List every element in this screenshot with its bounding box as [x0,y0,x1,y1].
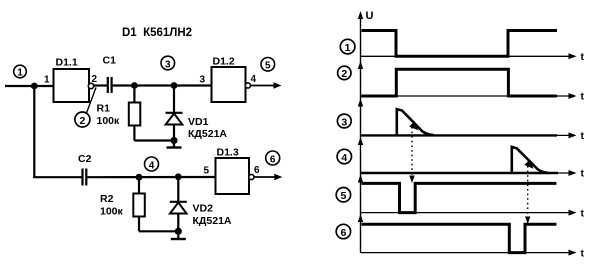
U axis [358,11,363,253]
svg-text:6: 6 [254,165,260,176]
svg-text:2: 2 [92,74,98,85]
dotted line 4 [525,166,530,224]
diode VD1 [166,86,183,141]
node 1 [14,65,27,78]
junction [175,228,182,235]
inverter D1.2 [212,67,251,102]
svg-text:D1.2: D1.2 [213,56,235,68]
resistor R1 [129,86,174,141]
node 4 [145,157,159,171]
waveform 2 [362,69,558,96]
node 3 [161,56,175,70]
svg-text:2: 2 [79,115,85,127]
t axis row 5 [361,210,577,216]
wire [112,84,212,86]
svg-text:t: t [581,130,585,142]
svg-text:1: 1 [345,42,351,54]
svg-text:t: t [581,207,585,219]
inverter D1.3 [216,158,254,194]
t axis row 1 [361,53,577,59]
svg-text:VD2: VD2 [193,203,214,215]
node label 3 [337,114,351,128]
wire [5,85,54,87]
svg-text:4: 4 [251,74,257,85]
t axis row 2 [361,93,577,99]
waveform 1 [362,31,558,57]
junction [175,173,182,180]
svg-text:6: 6 [270,154,276,165]
svg-text:C1: C1 [103,55,117,67]
waveform 4 [361,147,558,173]
svg-text:100к: 100к [97,115,121,127]
svg-text:D1.3: D1.3 [217,147,239,159]
t axis row 6 [361,250,577,256]
svg-text:U: U [366,10,374,22]
wire [94,84,108,86]
svg-text:5: 5 [204,166,210,177]
ground [171,231,186,239]
node label 6 [336,224,350,239]
ground [167,141,182,148]
svg-text:5: 5 [340,190,346,202]
t axis row 4 [361,170,577,176]
junction [136,174,143,181]
capacitor C1 [108,77,112,93]
node 6 [266,151,280,165]
svg-text:D1 К561ЛН2: D1 К561ЛН2 [122,27,192,39]
dotted line 3 [409,127,414,183]
svg-text:t: t [581,51,585,63]
junction [31,83,38,90]
discharge arrow 4 [526,161,533,168]
svg-text:4: 4 [149,160,155,171]
node label 2 [338,66,351,80]
svg-text:4: 4 [341,152,347,164]
resistor R2 [133,177,178,231]
waveform 5 [362,183,557,212]
diode VD2 [170,177,187,231]
junction [170,137,177,144]
svg-text:2: 2 [341,68,347,80]
svg-text:3: 3 [165,59,171,70]
node label 4 [337,149,351,164]
svg-text:3: 3 [341,116,347,128]
wire [254,174,282,181]
waveform 6 [362,224,557,252]
svg-text:t: t [581,247,585,259]
node 5 [261,58,275,72]
svg-text:R2: R2 [100,193,114,205]
svg-text:3: 3 [200,75,206,86]
svg-text:C2: C2 [78,153,92,165]
svg-text:1: 1 [17,68,23,79]
svg-text:R1: R1 [97,103,111,115]
discharge arrow 3 [411,123,418,130]
svg-text:100к: 100к [100,206,124,218]
svg-text:VD1: VD1 [188,116,209,128]
node 2 [75,88,96,128]
waveform 3 [361,109,557,135]
node label 1 [340,39,355,54]
svg-text:1: 1 [44,75,50,86]
junction [131,82,138,89]
t axis row 3 [361,132,577,138]
svg-text:t: t [581,91,585,103]
svg-text:5: 5 [265,61,271,72]
svg-text:t: t [581,168,585,180]
junction [171,82,178,89]
wire [33,86,35,177]
svg-text:КД521А: КД521А [193,215,232,227]
svg-text:КД521А: КД521А [188,128,227,140]
wire [33,176,82,178]
inverter D1.1 [54,69,94,102]
node label 5 [336,188,350,203]
svg-text:6: 6 [340,227,346,239]
capacitor C2 [83,169,87,186]
svg-text:D1.1: D1.1 [56,57,78,69]
wire [86,176,215,178]
wire [251,82,282,89]
